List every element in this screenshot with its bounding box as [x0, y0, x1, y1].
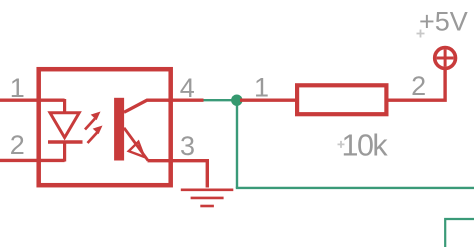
light arrow 2 [88, 126, 103, 144]
phototransistor Q base bar [114, 98, 124, 161]
svg-text:2: 2 [411, 71, 426, 101]
+5V plus horizontal [437, 57, 454, 60]
svg-text:3: 3 [180, 131, 195, 161]
ground GND bar1 [181, 189, 234, 192]
origin cross R1 [338, 141, 345, 148]
LED D cathode bar [48, 140, 83, 143]
ground GND bar2 [191, 197, 224, 200]
+5V plus vertical [444, 50, 447, 67]
svg-text:1: 1 [10, 73, 25, 103]
wire pin2 [0, 159, 65, 162]
+5V supply circle [435, 48, 456, 69]
wire pin1 [0, 98, 65, 101]
light arrow 1 [85, 112, 101, 130]
junction dot [231, 95, 242, 106]
net N$1 green segment [204, 99, 233, 101]
phototransistor emitter line [124, 128, 148, 161]
wire resistor left (red) [240, 98, 297, 101]
origin cross +5V [417, 30, 425, 38]
wire pin3 (red) to ground [148, 161, 208, 188]
LED D cathode lead [63, 142, 66, 162]
ground GND bar3 [200, 205, 214, 208]
LED D anode lead [63, 99, 66, 113]
wire resistor right to +5V (red) [387, 69, 446, 100]
svg-text:10k: 10k [342, 129, 389, 163]
net N$1 bottom run [236, 187, 474, 189]
svg-text:2: 2 [10, 130, 25, 160]
phototransistor collector line [124, 100, 170, 112]
net N$1 vertical drop [236, 100, 238, 188]
svg-text:4: 4 [180, 73, 195, 103]
svg-text:1: 1 [254, 73, 269, 103]
LED D triangle [50, 113, 79, 138]
svg-text:+5V: +5V [419, 7, 468, 37]
phototransistor emitter arrowhead [129, 142, 145, 157]
net wire bottom-right corner [445, 219, 474, 247]
optocoupler U1 body [39, 69, 171, 185]
wire pin4 (red) [168, 98, 204, 101]
resistor R1 body [297, 85, 386, 114]
